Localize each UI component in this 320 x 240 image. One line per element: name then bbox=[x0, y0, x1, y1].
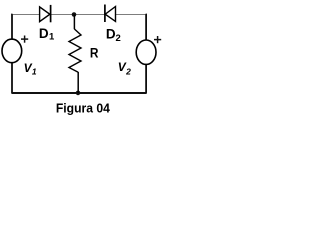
wire top horizontal right segment bbox=[115, 14, 147, 16]
svg-text:D: D bbox=[39, 26, 49, 41]
diode D1 cathode bar bbox=[50, 5, 52, 22]
svg-text:1: 1 bbox=[49, 32, 55, 43]
junction node bottom bbox=[76, 91, 81, 96]
wire top horizontal left segment bbox=[11, 14, 40, 16]
svg-text:1: 1 bbox=[32, 66, 37, 76]
svg-text:R: R bbox=[90, 44, 99, 60]
resistor R bottom lead bbox=[77, 72, 79, 93]
source V1 circle bbox=[2, 39, 22, 63]
svg-text:2: 2 bbox=[125, 66, 131, 76]
resistor R zigzag bbox=[69, 29, 81, 72]
diode D2 triangle bbox=[105, 7, 115, 22]
diode D1 triangle bbox=[40, 7, 50, 22]
wire right vertical lower bbox=[145, 64, 147, 93]
svg-text:2: 2 bbox=[116, 33, 121, 44]
wire top horizontal middle segment bbox=[50, 14, 106, 16]
source V1 plus sign bbox=[21, 36, 28, 43]
resistor R top lead bbox=[73, 15, 75, 30]
wire left vertical lower bbox=[11, 63, 13, 93]
diode D2 cathode bar bbox=[104, 5, 106, 23]
junction node top bbox=[72, 12, 77, 17]
wire right vertical upper bbox=[145, 15, 148, 41]
source V2 plus sign bbox=[154, 36, 161, 43]
svg-text:Figura 04: Figura 04 bbox=[56, 101, 110, 115]
svg-text:D: D bbox=[106, 26, 116, 41]
wire left vertical upper bbox=[11, 15, 14, 40]
source V2 circle bbox=[136, 40, 156, 64]
wire bottom horizontal bbox=[11, 92, 146, 94]
